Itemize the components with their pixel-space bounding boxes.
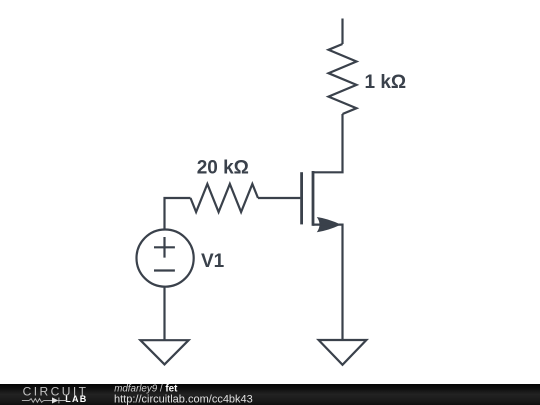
- transistor Q1 source arrow: [317, 217, 341, 232]
- logo schematic squiggle: diode triangle: [52, 397, 58, 403]
- logo schematic squiggle: wire: [22, 400, 29, 402]
- logo schematic squiggle: diode bar and wire: [58, 398, 67, 404]
- svg-text:LAB: LAB: [65, 394, 87, 404]
- svg-text:1 kΩ: 1 kΩ: [365, 72, 407, 93]
- wire: V1 plus terminal up and right to R2 left end: [165, 198, 191, 229]
- resistor R2: [191, 184, 259, 212]
- wire: R2 right end to Q1 gate: [258, 197, 300, 199]
- wire: open top terminal to R1 top: [341, 19, 343, 45]
- svg-text:http://circuitlab.com/cc4bk43: http://circuitlab.com/cc4bk43: [114, 393, 253, 405]
- resistor R1: [329, 44, 357, 114]
- footer bar: [0, 384, 540, 405]
- voltage source V1 circle: [137, 230, 194, 287]
- ground G2: [319, 340, 367, 365]
- transistor Q1 channel bar: [312, 171, 315, 226]
- wire: R1 bottom to Q1 drain: [314, 114, 343, 172]
- logo schematic squiggle: resistor: [29, 399, 44, 403]
- V1 plus sign: [154, 237, 175, 258]
- svg-text:V1: V1: [201, 251, 225, 272]
- svg-text:20 kΩ: 20 kΩ: [197, 158, 249, 179]
- wire: V1 minus terminal to ground G1: [163, 286, 165, 340]
- ground G1: [140, 340, 188, 364]
- transistor Q1 gate bar: [300, 172, 303, 224]
- wire: Q1 source to ground G2: [313, 225, 343, 340]
- V1 minus sign: [154, 269, 175, 271]
- logo schematic squiggle: wire to diode: [44, 400, 53, 402]
